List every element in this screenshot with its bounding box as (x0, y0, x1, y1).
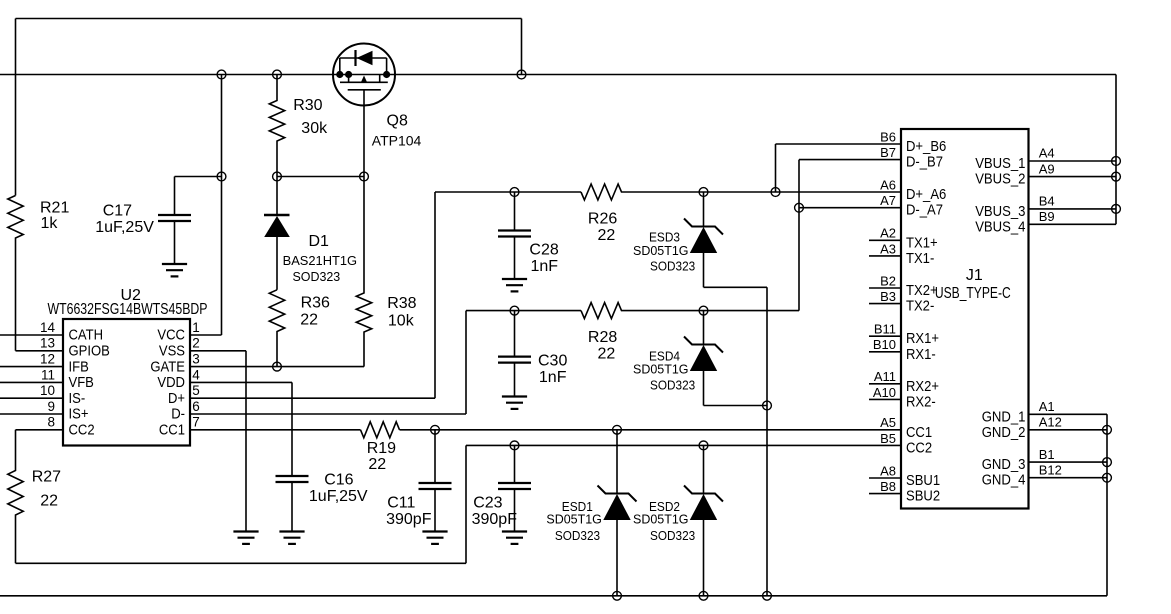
capacitor C23 (498, 445, 531, 531)
wire J1 pin B9 VBUS_4 (1029, 223, 1117, 225)
svg-text:A2: A2 (880, 226, 896, 241)
svg-text:VCC: VCC (157, 327, 185, 344)
svg-text:A5: A5 (880, 415, 896, 430)
svg-text:GND_2: GND_2 (982, 424, 1026, 441)
svg-text:14: 14 (40, 320, 56, 335)
wire top rail right drop (521, 19, 523, 75)
connector J1 box (901, 129, 1029, 509)
wire B6 net (776, 143, 902, 145)
ground C28 (502, 279, 527, 291)
svg-text:SOD323: SOD323 (650, 259, 695, 274)
svg-text:VBUS_1: VBUS_1 (975, 155, 1025, 172)
wire B7 riser (798, 160, 800, 311)
svg-text:D+_A6: D+_A6 (906, 186, 946, 203)
wire R27 bottom link (16, 562, 467, 564)
wire J1 pin B8 stub (869, 493, 901, 495)
svg-text:8: 8 (47, 415, 55, 430)
capacitor C16 (276, 382, 309, 531)
svg-text:B8: B8 (880, 479, 896, 494)
node junction VCC/C17 (217, 172, 226, 181)
svg-text:ATP104: ATP104 (372, 133, 422, 149)
diode D1 (264, 177, 290, 290)
node junction R30 top (273, 70, 282, 79)
svg-text:22: 22 (368, 456, 386, 473)
resistor R28 (581, 303, 799, 319)
wire J1 pin B10 stub (869, 351, 901, 353)
svg-text:GND_1: GND_1 (982, 408, 1026, 425)
svg-text:VSS: VSS (159, 343, 185, 360)
svg-text:D+: D+ (168, 390, 185, 407)
resistor R19 (361, 422, 400, 438)
wire J1 pin A4 VBUS_1 (1029, 160, 1117, 162)
svg-text:IFB: IFB (69, 358, 89, 375)
wire pin1 VCC (190, 334, 222, 336)
svg-text:SBU2: SBU2 (906, 488, 940, 505)
svg-text:IS+: IS+ (69, 406, 89, 423)
svg-text:6: 6 (192, 399, 200, 414)
wire R21 top lead from top rail (15, 19, 17, 196)
wire pin4 VDD (190, 381, 292, 383)
capacitor C30 (498, 311, 531, 397)
wire ESD3 bottom elbow (704, 286, 768, 288)
wire VSS vertical (245, 351, 247, 532)
node junction ESD4/riser (763, 401, 772, 410)
svg-text:9: 9 (47, 399, 55, 414)
node junction C30 (510, 306, 519, 315)
capacitor C28 (498, 192, 531, 279)
wire pin2 VSS (190, 350, 246, 352)
wire J1 pin B2 stub (869, 287, 901, 289)
svg-text:30k: 30k (301, 120, 328, 137)
ground C17 (162, 264, 187, 276)
svg-text:SOD323: SOD323 (555, 528, 600, 543)
wire pin3 GATE (190, 366, 364, 368)
wire CC1 line to J1 (400, 429, 902, 431)
wire J1 pin A9 VBUS_2 (1029, 176, 1117, 178)
wire A7 net (799, 207, 901, 209)
node junction VBUS_1 (1112, 157, 1121, 166)
svg-text:7: 7 (192, 415, 200, 430)
diode ESD4 (684, 311, 723, 406)
svg-text:1uF,25V: 1uF,25V (95, 219, 154, 236)
svg-text:R28: R28 (588, 329, 617, 346)
svg-text:R36: R36 (301, 294, 330, 311)
resistor R30 (269, 75, 284, 177)
wire GND riser (1106, 414, 1108, 596)
svg-text:C16: C16 (324, 472, 353, 489)
svg-text:R30: R30 (293, 97, 322, 114)
svg-text:SOD323: SOD323 (293, 269, 341, 284)
svg-text:R38: R38 (387, 295, 416, 312)
wire pin8 CC2 (16, 429, 64, 431)
svg-text:B12: B12 (1039, 462, 1062, 477)
node junction R19/C11 (431, 425, 440, 434)
wire pin10 IS- (0, 397, 63, 399)
svg-text:C11: C11 (387, 494, 415, 511)
resistor R21 (8, 196, 23, 351)
node junction ESD1 bottom (613, 591, 622, 600)
svg-text:GATE: GATE (150, 358, 185, 375)
node junction C28 (510, 188, 519, 197)
wire J1 pin B11 stub (869, 335, 901, 337)
node junction R36/GATE (273, 362, 282, 371)
resistor R27 (8, 430, 23, 564)
node junction B6 drop (771, 188, 780, 197)
svg-text:B9: B9 (1039, 209, 1055, 224)
wire CC2 riser (465, 445, 467, 563)
svg-text:13: 13 (40, 336, 55, 351)
svg-text:A9: A9 (1039, 161, 1055, 176)
svg-text:J1: J1 (966, 267, 983, 284)
svg-text:CATH: CATH (69, 327, 104, 344)
node junction GND_4 (1103, 473, 1112, 482)
svg-text:5: 5 (192, 383, 200, 398)
node junction VBUS_2 (1112, 172, 1121, 181)
svg-text:B2: B2 (880, 273, 896, 288)
wire pin13 GPIOB (16, 350, 64, 352)
wire CC2 line (466, 444, 901, 446)
svg-text:RX1-: RX1- (906, 346, 936, 363)
svg-text:R26: R26 (588, 210, 617, 227)
wire ESD4 bottom elbow (704, 405, 768, 407)
svg-text:TX2-: TX2- (906, 298, 934, 315)
svg-text:B10: B10 (873, 337, 896, 352)
wire pin7 CC1 to R19 (190, 429, 361, 431)
svg-text:C17: C17 (103, 202, 132, 219)
wire bottom rail (0, 595, 1107, 597)
wire pin12 IFB (0, 366, 63, 368)
wire J1 pin A11 stub (869, 383, 901, 385)
svg-text:A11: A11 (874, 369, 896, 384)
wire ESD3/ESD4 riser (766, 287, 768, 596)
resistor R36 (269, 290, 284, 367)
wire J1 pin B3 stub (869, 303, 901, 305)
svg-text:A12: A12 (1039, 415, 1062, 430)
svg-text:22: 22 (40, 493, 58, 510)
wire main VBUS rail (0, 74, 1116, 76)
svg-text:22: 22 (598, 227, 616, 244)
svg-text:SOD323: SOD323 (650, 528, 695, 543)
resistor R38 (356, 177, 371, 367)
resistor R26 (581, 184, 901, 200)
svg-text:RX2+: RX2+ (906, 378, 939, 395)
wire pin6 D- (190, 413, 466, 415)
svg-text:GND_4: GND_4 (982, 472, 1026, 489)
node junction ESD3 top (699, 188, 708, 197)
node junction riser bottom (763, 591, 772, 600)
svg-text:22: 22 (598, 345, 616, 362)
svg-text:B3: B3 (880, 289, 896, 304)
ground C11 (422, 532, 447, 544)
node junction ESD4 top (699, 306, 708, 315)
svg-text:C23: C23 (473, 494, 502, 511)
svg-text:VBUS_4: VBUS_4 (975, 218, 1025, 235)
svg-text:A1: A1 (1039, 399, 1055, 414)
node junction R30/D1 (273, 172, 282, 181)
svg-text:VDD: VDD (157, 374, 185, 391)
svg-text:VBUS_2: VBUS_2 (975, 171, 1025, 188)
svg-text:SD05T1G: SD05T1G (633, 243, 689, 258)
wire VBUS rail right drop (1115, 75, 1117, 225)
wire J1 pin A1 GND_1 (1029, 413, 1108, 415)
svg-text:A3: A3 (880, 241, 896, 256)
svg-text:10k: 10k (388, 313, 415, 330)
ground C16 (279, 532, 304, 544)
svg-text:B5: B5 (880, 431, 896, 446)
svg-text:SOD323: SOD323 (650, 378, 695, 393)
svg-text:CC2: CC2 (906, 439, 932, 456)
ground VSS (233, 532, 258, 544)
svg-text:TX1+: TX1+ (906, 234, 938, 251)
node junction top-drop/main (517, 70, 526, 79)
wire D- line (466, 310, 581, 312)
svg-text:D1: D1 (309, 233, 330, 250)
svg-text:B11: B11 (874, 322, 896, 337)
svg-text:B4: B4 (1039, 194, 1055, 209)
svg-text:C28: C28 (529, 242, 558, 259)
node junction C23/CC2 (510, 441, 519, 450)
svg-text:390pF: 390pF (386, 511, 432, 528)
svg-text:2: 2 (192, 336, 200, 351)
svg-text:R19: R19 (367, 440, 396, 457)
node junction B7/A7 (795, 203, 804, 212)
capacitor C11 (419, 430, 452, 532)
svg-text:1nF: 1nF (531, 258, 559, 275)
wire J1 pin A10 stub (869, 398, 901, 400)
svg-text:D-_B7: D-_B7 (906, 154, 943, 171)
wire pin9 IS+ (0, 413, 63, 415)
svg-text:B6: B6 (880, 129, 896, 144)
svg-text:1nF: 1nF (539, 369, 567, 386)
svg-text:USB_TYPE-C: USB_TYPE-C (935, 285, 1011, 302)
diode ESD3 (684, 192, 723, 287)
wire J1 pin A8 stub (869, 477, 901, 479)
svg-text:SD05T1G: SD05T1G (633, 362, 689, 377)
wire J1 pin B12 GND_4 (1029, 477, 1108, 479)
wire B7 net (799, 159, 901, 161)
svg-text:D-: D- (171, 406, 185, 423)
wire pin14 CATH (0, 334, 63, 336)
svg-text:CC1: CC1 (906, 424, 932, 441)
svg-text:IS-: IS- (69, 390, 86, 407)
svg-text:A4: A4 (1039, 146, 1055, 161)
wire J1 pin A12 GND_2 (1029, 429, 1108, 431)
wire J1 pin B4 VBUS_3 (1029, 208, 1117, 210)
node junction VCC/main rail (217, 70, 226, 79)
svg-text:B1: B1 (1039, 447, 1055, 462)
wire D+ riser (434, 192, 436, 398)
node junction GND_2 (1103, 425, 1112, 434)
wire VCC vertical (221, 75, 223, 336)
svg-text:1: 1 (192, 320, 200, 335)
svg-text:BAS21HT1G: BAS21HT1G (283, 253, 358, 268)
node junction GND_3 (1103, 458, 1112, 467)
ground C30 (502, 397, 527, 409)
svg-text:D-_A7: D-_A7 (906, 202, 943, 219)
svg-text:GPIOB: GPIOB (69, 343, 110, 360)
wire pin11 VFB (0, 381, 63, 383)
svg-text:11: 11 (41, 367, 55, 382)
svg-text:A10: A10 (873, 385, 896, 400)
svg-text:Q8: Q8 (387, 112, 408, 129)
ground C23 (502, 532, 527, 544)
svg-text:CC1: CC1 (159, 422, 185, 439)
svg-text:WT6632FSG14BWTS45BDP: WT6632FSG14BWTS45BDP (48, 301, 208, 318)
node junction gate col (360, 172, 369, 181)
wire D- riser (465, 311, 467, 414)
svg-text:RX1+: RX1+ (906, 330, 939, 347)
node junction VBUS_3 (1112, 205, 1121, 214)
svg-text:390pF: 390pF (472, 511, 518, 528)
node junction ESD2 bottom (699, 591, 708, 600)
diode ESD1 (598, 430, 637, 596)
svg-text:10: 10 (40, 383, 55, 398)
svg-text:12: 12 (40, 352, 55, 367)
svg-text:1uF,25V: 1uF,25V (309, 488, 368, 505)
diode ESD2 (684, 445, 723, 595)
svg-text:A6: A6 (880, 177, 896, 192)
svg-text:C30: C30 (538, 353, 567, 370)
wire top rail (16, 18, 522, 20)
svg-text:22: 22 (300, 311, 318, 328)
wire Q8 gate lead (363, 90, 365, 177)
IC U2 box (63, 319, 190, 446)
wire J1 pin A3 stub (869, 255, 901, 257)
svg-text:VFB: VFB (69, 374, 94, 391)
svg-text:CC2: CC2 (69, 422, 95, 439)
wire C17 link (175, 176, 222, 178)
svg-text:1k: 1k (41, 215, 59, 232)
svg-text:TX2+: TX2+ (906, 282, 938, 299)
svg-text:TX1-: TX1- (906, 250, 934, 267)
wire D+ line (435, 191, 581, 193)
node junction ESD2 top (699, 441, 708, 450)
wire J1 pin B1 GND_3 (1029, 461, 1108, 463)
svg-text:SBU1: SBU1 (906, 472, 940, 489)
svg-text:GND_3: GND_3 (982, 456, 1026, 473)
svg-text:B7: B7 (880, 145, 896, 160)
wire link D1-col to Q8-col (277, 176, 364, 178)
svg-text:RX2-: RX2- (906, 393, 936, 410)
svg-text:4: 4 (192, 367, 200, 382)
transistor Q8 (333, 44, 395, 106)
wire pin5 D+ (190, 397, 435, 399)
wire J1 pin A2 stub (869, 239, 901, 241)
node junction ESD1 top (613, 425, 622, 434)
wire B6 riser (775, 144, 777, 192)
svg-text:A7: A7 (880, 193, 896, 208)
svg-text:R27: R27 (32, 469, 61, 486)
svg-text:A8: A8 (880, 463, 896, 478)
capacitor C17 (158, 177, 191, 265)
svg-text:SD05T1G: SD05T1G (546, 512, 602, 527)
svg-text:D+_B6: D+_B6 (906, 138, 946, 155)
svg-text:3: 3 (192, 352, 200, 367)
svg-text:SD05T1G: SD05T1G (633, 512, 689, 527)
